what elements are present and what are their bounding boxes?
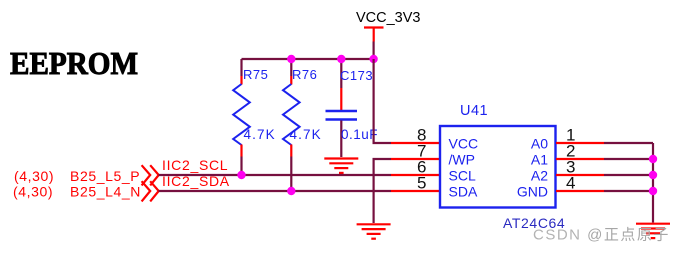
IC U41 body	[440, 126, 556, 208]
svg-text:R75: R75	[243, 67, 268, 82]
resistor R75	[233, 59, 275, 175]
pin 4 stub	[556, 190, 604, 192]
svg-text:VCC: VCC	[449, 136, 479, 152]
capacitor C173	[326, 59, 379, 157]
pin 2 stub	[556, 158, 604, 160]
wire right vertical to ground	[652, 143, 654, 223]
pin 1 stub	[556, 142, 604, 144]
wire GND to bus	[604, 190, 653, 192]
svg-text:C173: C173	[340, 68, 373, 83]
off-page connector IIC2_SDA	[142, 181, 159, 201]
svg-text:B25_L4_N: B25_L4_N	[70, 184, 141, 200]
svg-text:(4,30): (4,30)	[13, 184, 53, 200]
svg-text:SDA: SDA	[449, 184, 478, 200]
pin 7 stub	[391, 158, 441, 160]
junction dot SDA-R76	[287, 187, 295, 195]
svg-text:R76: R76	[292, 67, 317, 82]
junction dot bus-R76	[287, 55, 295, 63]
wire VCC stub from power bar	[373, 42, 375, 60]
svg-text:4.7K: 4.7K	[290, 127, 322, 142]
wire VCC bus horizontal	[242, 58, 374, 60]
svg-text:/WP: /WP	[449, 152, 475, 168]
wire A0 to bus	[604, 142, 653, 144]
svg-text:0.1uF: 0.1uF	[341, 127, 378, 142]
svg-text:A2: A2	[531, 168, 548, 184]
pin 3 stub	[556, 174, 604, 176]
pin 6 stub	[391, 174, 441, 176]
wire VCC down to pin8	[374, 59, 391, 143]
junction dot A1	[649, 155, 657, 163]
svg-text:4: 4	[566, 174, 575, 193]
svg-text:IIC2_SCL: IIC2_SCL	[162, 157, 228, 173]
pin 5 stub	[391, 190, 441, 192]
pin 8 stub	[391, 142, 441, 144]
svg-text:5: 5	[417, 174, 426, 193]
svg-text:(4,30): (4,30)	[14, 168, 54, 184]
junction dot A2	[649, 171, 657, 179]
svg-text:SCL: SCL	[449, 168, 476, 184]
svg-text:B25_L5_P: B25_L5_P	[70, 168, 140, 184]
svg-text:VCC_3V3: VCC_3V3	[356, 10, 420, 26]
svg-text:4.7K: 4.7K	[244, 127, 276, 142]
svg-text:A1: A1	[531, 152, 548, 168]
wire A1 to bus	[604, 158, 653, 160]
svg-text:CSDN @正点原子: CSDN @正点原子	[533, 227, 670, 244]
ground under C173	[324, 159, 358, 173]
svg-text:U41: U41	[460, 103, 488, 119]
junction dot bus-C173	[337, 55, 345, 63]
ground under /WP	[357, 224, 391, 238]
wire SCL net	[159, 174, 392, 176]
svg-text:EEPROM: EEPROM	[10, 45, 138, 81]
power VCC_3V3 bar symbol	[364, 28, 384, 42]
wire A2 to bus	[604, 174, 653, 176]
ground right	[636, 224, 670, 238]
wire /WP to ground	[374, 159, 391, 223]
junction dot bus-VCC	[369, 55, 377, 63]
off-page connector IIC2_SCL	[142, 165, 159, 185]
svg-text:A0: A0	[531, 136, 548, 152]
junction dot SCL-R75	[237, 171, 245, 179]
wire SDA net	[159, 190, 392, 192]
resistor R76	[283, 59, 322, 191]
junction dot GND	[649, 187, 657, 195]
svg-text:GND: GND	[517, 184, 548, 200]
